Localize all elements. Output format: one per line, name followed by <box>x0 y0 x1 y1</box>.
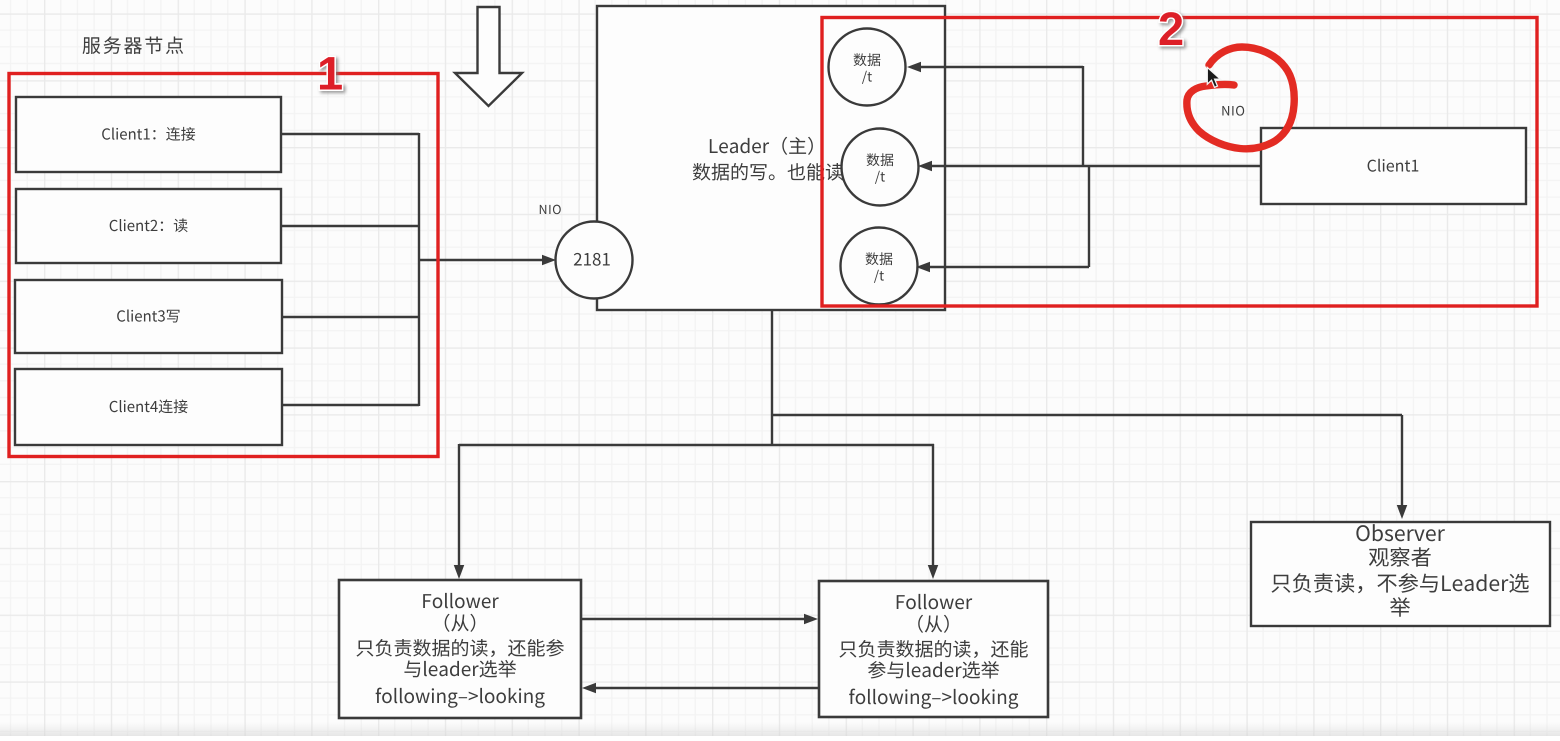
arrowhead into Follower1 <box>454 565 465 579</box>
wire Follower1 vertical <box>458 444 460 572</box>
wire to data1 <box>914 66 1083 68</box>
label Client2：读 <box>110 218 188 232</box>
label NIO (client) <box>1222 106 1244 116</box>
label 与leader选举 <box>404 660 516 678</box>
label 数据 (circle 2) <box>867 153 894 166</box>
wire Follower1 to Follower2 <box>581 618 811 620</box>
label /t (circle 1) <box>862 71 872 84</box>
wire followers horizontal <box>459 444 934 446</box>
label following->looking (2) <box>849 689 1018 709</box>
red rect 1 (annotation) <box>9 74 438 457</box>
arrowhead into Follower1 side <box>582 683 596 694</box>
wire Follower2 vertical <box>932 444 934 572</box>
label Client4连接 <box>110 399 188 413</box>
arrowhead into Observer <box>1397 505 1408 519</box>
wire Client1 to bus <box>281 133 419 135</box>
mouse cursor <box>1207 67 1220 87</box>
red number 1 <box>320 57 342 89</box>
label 举 <box>1390 597 1410 617</box>
label 数据 (circle 3) <box>866 252 893 265</box>
data circle 3 <box>841 228 918 305</box>
wire vertical data1-data2 <box>1082 66 1084 166</box>
arrowhead into data3 <box>916 262 930 273</box>
box Follower2 <box>819 581 1048 717</box>
bottom fade strip <box>0 722 1560 736</box>
label 只负责读，不参与Leader选 <box>1271 573 1528 593</box>
label Client3写 <box>117 310 179 323</box>
big hollow down arrow <box>455 7 522 106</box>
data circle 1 <box>829 29 906 106</box>
red rect 2 (annotation) <box>822 18 1537 307</box>
label 服务器节点 <box>83 37 184 55</box>
wire Observer vertical <box>1401 415 1403 512</box>
label Leader（主） <box>710 137 813 155</box>
wire Follower2 to Follower1 <box>589 687 819 689</box>
circle 2181 <box>556 222 633 299</box>
label 只负责数据的读，还能 <box>839 640 1027 658</box>
label Observer <box>1356 524 1445 541</box>
arrowhead into Follower2 <box>928 565 939 579</box>
arrowhead into Follower2 side <box>804 614 818 625</box>
label 只负责数据的读，还能参 <box>356 639 563 657</box>
box Client1 (right) <box>1261 128 1526 204</box>
label /t (circle 2) <box>875 171 885 184</box>
box Leader <box>597 6 945 310</box>
wire Client1 to data2 <box>925 165 1261 167</box>
arrowhead into data2 <box>918 161 932 172</box>
label Client1 (right) <box>1368 159 1419 172</box>
red number 2 <box>1160 12 1183 45</box>
label 观察者 <box>1369 547 1431 567</box>
label NIO (2181 port) <box>540 205 561 214</box>
label Client1：连接 <box>102 127 195 141</box>
red hand-drawn loop around NIO <box>1187 47 1294 149</box>
label Follower (1) <box>423 593 499 608</box>
label 数据 (circle 1) <box>854 53 881 66</box>
wire Client2 to bus <box>281 225 419 227</box>
wire Client4 to bus <box>282 404 419 406</box>
label 数据的写。也能读 <box>693 163 843 181</box>
box Client3 <box>15 280 282 353</box>
arrowhead into data1 <box>907 62 921 73</box>
box Client1 <box>16 97 281 172</box>
data circle 2 <box>842 129 919 206</box>
box Client4 <box>15 369 282 445</box>
box Follower1 <box>339 580 581 718</box>
label following->looking (1) <box>376 688 545 708</box>
box Observer <box>1251 522 1550 626</box>
wire bus to 2181 <box>419 259 547 261</box>
label （从） (2) <box>918 615 949 633</box>
wire Client3 to bus <box>282 316 419 318</box>
label Follower (2) <box>897 594 973 609</box>
wire client bus vertical <box>418 133 420 406</box>
label 2181 <box>574 253 610 266</box>
wire Leader bottom vertical <box>771 309 773 446</box>
label 参与leader选举 <box>868 661 999 679</box>
wire to data3 <box>923 266 1089 268</box>
arrowhead into 2181 <box>542 255 556 266</box>
wire to Observer horizontal <box>771 414 1402 416</box>
wire vertical data2-data3 <box>1088 166 1090 267</box>
label /t (circle 3) <box>874 270 884 283</box>
label （从） (1) <box>445 614 476 632</box>
box Client2 <box>16 189 281 263</box>
